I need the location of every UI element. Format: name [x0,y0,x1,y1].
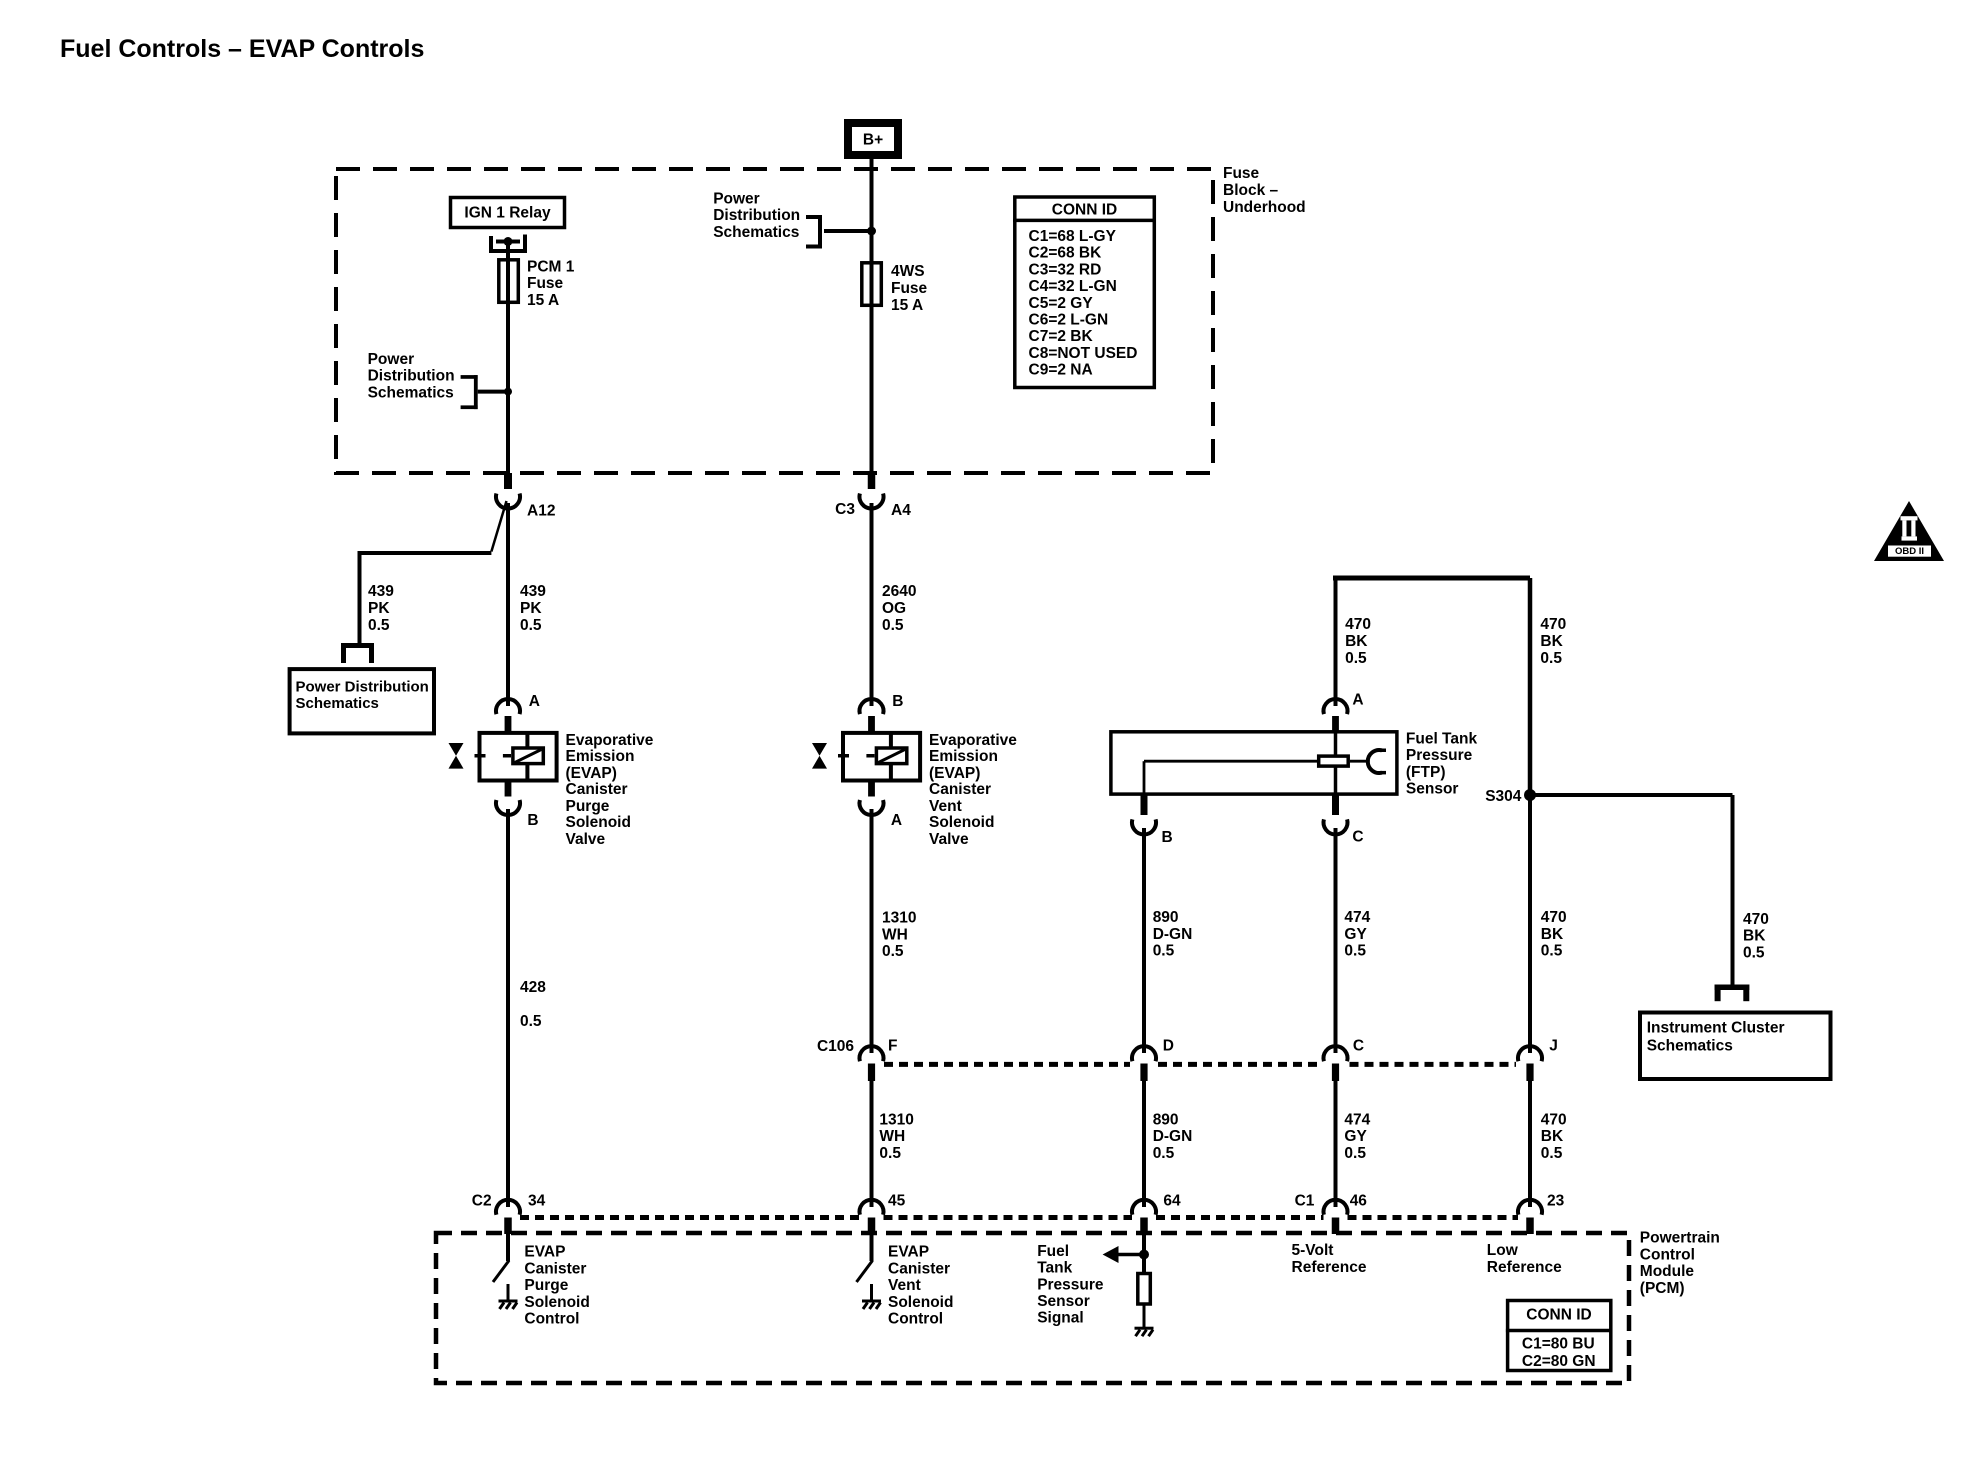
svg-text:Powertrain: Powertrain [1640,1230,1720,1247]
svg-text:Solenoid: Solenoid [524,1294,589,1311]
connector PCM-23 pin [1526,1218,1534,1235]
connector PCM-46 pin [1332,1218,1340,1235]
svg-text:64: 64 [1163,1193,1181,1210]
wire S304 to instrument cluster branch [1530,793,1733,797]
svg-text:Control: Control [888,1311,943,1328]
connector PCM-34 pin [504,1218,512,1235]
connector PCM-45 cup [860,1200,884,1215]
wire power distribution branch [824,229,872,233]
connector PCM-34 cup [496,1200,520,1215]
FTP resistor wire [1143,1304,1146,1327]
svg-text:Canister: Canister [524,1260,586,1277]
svg-text:Schematics: Schematics [368,385,454,402]
svg-text:C6=2 L-GN: C6=2 L-GN [1029,312,1109,329]
svg-text:BK: BK [1743,928,1766,945]
svg-text:Pressure: Pressure [1406,747,1473,764]
svg-text:PCM 1: PCM 1 [527,258,575,275]
wire top bracket FTP-A to 470BK [1333,576,1530,581]
svg-text:A4: A4 [891,502,911,519]
svg-text:(PCM): (PCM) [1640,1280,1685,1297]
svg-text:A: A [529,693,540,710]
svg-text:Sensor: Sensor [1037,1293,1090,1310]
svg-text:Vent: Vent [888,1277,921,1294]
connector FTP A cup [1324,699,1348,714]
connector row C106 dotted line [884,1062,1130,1067]
svg-text:C8=NOT USED: C8=NOT USED [1029,345,1138,362]
svg-text:OBD II: OBD II [1895,546,1924,557]
connector PCM-23 cup [1518,1200,1542,1215]
svg-text:15 A: 15 A [527,292,559,309]
svg-text:Evaporative: Evaporative [566,732,654,749]
fuse 4WS 15 A [862,263,882,306]
wire 428 / purge control [506,809,510,1207]
connector A12 cup [496,494,520,509]
svg-text:0.5: 0.5 [1153,943,1175,960]
svg-text:0.5: 0.5 [520,617,542,634]
svg-text:GY: GY [1344,1128,1367,1145]
wire 470 BK lower [1528,1081,1532,1207]
svg-text:Valve: Valve [929,831,969,848]
wire 470 BK right vertical upper [1528,578,1533,795]
svg-text:C7=2 BK: C7=2 BK [1029,328,1094,345]
connector PCM-46 cup [1324,1200,1348,1215]
svg-text:45: 45 [888,1193,906,1210]
svg-text:Tank: Tank [1037,1260,1072,1277]
wire relay to PCM1 fuse [506,242,510,475]
connector EVAP canister purge solenoid valve bottom cup [496,800,520,815]
EVAP purge control wire [506,1233,510,1261]
svg-text:23: 23 [1547,1193,1565,1210]
svg-text:C: C [1353,1038,1364,1055]
EVAP canister vent solenoid valve valve symbol [812,743,827,756]
EVAP canister vent solenoid valve coil link [889,733,893,748]
fuse block - underhood dashed box [336,169,1213,473]
FTP signal arrow [1117,1253,1144,1257]
svg-text:Pressure: Pressure [1037,1276,1104,1293]
IGN 1 Relay box [451,198,565,228]
svg-text:Emission: Emission [929,748,998,765]
powertrain control module dashed box [436,1233,1629,1383]
svg-text:Schematics: Schematics [1647,1038,1733,1055]
svg-text:Canister: Canister [888,1260,950,1277]
connector EVAP canister vent solenoid valve bottom pin [868,781,875,797]
EVAP canister purge solenoid valve valve symbol [449,743,464,756]
wire 470 BK middle [1528,795,1532,1053]
svg-text:Underhood: Underhood [1223,199,1306,216]
svg-text:Fuse: Fuse [891,280,928,297]
svg-text:890: 890 [1153,1111,1179,1128]
EVAP canister vent solenoid valve valve dashed link [838,754,849,758]
B+ battery feed box [848,123,898,155]
svg-text:(EVAP): (EVAP) [566,765,617,782]
svg-text:890: 890 [1153,909,1179,926]
svg-text:Fuel: Fuel [1037,1243,1069,1260]
power distribution schematics box [290,669,434,733]
node 4WS branch [867,227,876,236]
svg-text:F: F [888,1038,897,1055]
svg-text:5-Volt: 5-Volt [1292,1242,1334,1259]
svg-text:PK: PK [368,600,390,617]
svg-text:C5=2 GY: C5=2 GY [1029,295,1094,312]
svg-text:Vent: Vent [929,798,962,815]
svg-text:BK: BK [1541,1128,1564,1145]
svg-text:439: 439 [368,583,394,600]
wire 1310 WH upper [870,809,874,1053]
connector C106-J pin [1526,1064,1533,1082]
svg-text:C: C [1352,828,1363,845]
svg-text:439: 439 [520,583,546,600]
svg-text:34: 34 [528,1193,546,1210]
svg-text:Instrument Cluster: Instrument Cluster [1647,1020,1785,1037]
FTP sensing element [1319,756,1349,766]
svg-text:Control: Control [524,1311,579,1328]
svg-text:0.5: 0.5 [1541,1145,1563,1162]
svg-text:0.5: 0.5 [1344,1145,1366,1162]
svg-text:Fuse: Fuse [1223,165,1260,182]
svg-text:2640: 2640 [882,583,916,600]
node purge PD branch [504,388,512,396]
wire power distribution branch (left) [478,390,508,394]
svg-text:474: 474 [1344,1111,1370,1128]
svg-text:A: A [1352,692,1363,709]
EVAP canister purge solenoid valve coil [513,748,543,764]
EVAP purge control switch [493,1261,509,1283]
node S304 [1524,789,1536,801]
connector C106-D cup [1132,1046,1156,1061]
svg-text:0.5: 0.5 [520,1013,542,1030]
svg-text:C2=80 GN: C2=80 GN [1522,1353,1596,1370]
svg-text:Reference: Reference [1292,1259,1367,1276]
svg-text:S304: S304 [1485,788,1522,805]
svg-text:428: 428 [520,979,546,996]
connector C3-A4 cup [860,494,884,509]
svg-text:470: 470 [1541,1111,1567,1128]
svg-text:A: A [891,812,902,829]
svg-text:0.5: 0.5 [879,1145,901,1162]
svg-text:15 A: 15 A [891,297,923,314]
relay output bracket [489,236,493,253]
svg-text:IGN 1 Relay: IGN 1 Relay [464,204,551,221]
svg-text:Power Distribution: Power Distribution [296,678,429,695]
connector EVAP canister purge solenoid valve bottom pin [505,781,512,797]
svg-text:C1: C1 [1295,1193,1315,1210]
fuse block CONN ID table [1015,197,1155,388]
svg-text:(FTP): (FTP) [1406,764,1446,781]
svg-text:Fuse: Fuse [527,275,564,292]
svg-text:CONN ID: CONN ID [1526,1307,1591,1324]
wire 890 D-GN lower [1142,1081,1146,1207]
EVAP canister purge solenoid valve valve dashed link [475,754,486,758]
svg-text:Control: Control [1640,1246,1695,1263]
connector FTP C pin [1332,794,1339,815]
connector C106-C pin [1332,1064,1339,1082]
connector C3-A4 pin [868,473,876,489]
svg-text:Fuel Controls – EVAP Controls: Fuel Controls – EVAP Controls [60,35,424,63]
svg-text:0.5: 0.5 [1153,1145,1175,1162]
svg-text:BK: BK [1540,633,1563,650]
svg-text:C106: C106 [817,1038,854,1055]
connector EVAP canister purge solenoid valve top cup [496,699,520,714]
EVAP canister vent solenoid valve coil [876,748,906,764]
svg-text:Schematics: Schematics [296,695,379,712]
svg-text:Evaporative: Evaporative [929,732,1017,749]
wire 474 GY lower [1334,1081,1338,1207]
svg-text:C2=68 BK: C2=68 BK [1029,245,1103,262]
connector C106-J cup [1518,1046,1542,1061]
svg-text:(EVAP): (EVAP) [929,765,980,782]
svg-text:474: 474 [1344,909,1370,926]
connector row PCM dotted line [520,1215,860,1220]
svg-text:Purge: Purge [524,1277,568,1294]
svg-text:Emission: Emission [566,748,635,765]
svg-text:1310: 1310 [879,1111,913,1128]
svg-text:OG: OG [882,600,906,617]
svg-text:470: 470 [1345,616,1371,633]
EVAP vent control wire [870,1233,874,1261]
svg-text:1310: 1310 [882,910,916,927]
svg-text:PK: PK [520,600,542,617]
svg-text:WH: WH [882,926,908,943]
svg-text:B+: B+ [863,132,883,149]
connector PCM-64 pin [1140,1218,1148,1235]
svg-text:0.5: 0.5 [368,617,390,634]
EVAP canister purge solenoid valve coil link [525,733,529,748]
svg-text:4WS: 4WS [891,263,925,280]
svg-text:D: D [1163,1038,1174,1055]
svg-text:B: B [892,693,903,710]
connector FTP B pin [1141,794,1148,815]
svg-text:BK: BK [1345,633,1368,650]
wire 1310 WH lower [870,1081,874,1207]
FTP port symbol [1368,750,1382,773]
svg-text:Sensor: Sensor [1406,781,1459,798]
svg-text:C3=32 RD: C3=32 RD [1029,261,1102,278]
wire tap to power distribution (diagonal) [491,501,506,552]
svg-text:C1=68 L-GY: C1=68 L-GY [1029,228,1117,245]
wire B+ to 4WS fuse [870,155,874,474]
wire 890 D-GN upper [1142,828,1146,1053]
svg-text:Fuel Tank: Fuel Tank [1406,730,1478,747]
EVAP canister purge solenoid valve box [480,733,557,781]
connector EVAP canister vent solenoid valve bottom cup [860,800,884,815]
ground (FTP signal) [1135,1327,1154,1330]
fuse PCM 1 15 A [499,260,519,303]
svg-text:A12: A12 [527,503,555,520]
connector C106-C cup [1324,1046,1348,1061]
connector PCM-64 cup [1132,1200,1156,1215]
connector FTP A pin [1332,716,1339,732]
connector EVAP canister purge solenoid valve top pin [505,716,512,731]
svg-text:Signal: Signal [1037,1310,1084,1327]
svg-text:J: J [1549,1038,1558,1055]
connector PCM-45 pin [868,1218,876,1235]
connector EVAP canister vent solenoid valve top cup [860,699,884,714]
svg-text:C2: C2 [472,1193,492,1210]
node FTP signal [1139,1250,1149,1260]
node relay output [504,237,513,246]
wire to power distribution schematics [360,551,492,555]
half-box bracket power distribution [341,643,374,648]
FTP internal wiring [1334,733,1338,756]
svg-text:Purge: Purge [566,798,610,815]
svg-text:EVAP: EVAP [524,1244,565,1261]
svg-text:B: B [527,812,538,829]
svg-text:C4=32 L-GN: C4=32 L-GN [1029,278,1117,295]
EVAP vent control switch [857,1261,873,1283]
svg-text:470: 470 [1541,909,1567,926]
FTP signal wire [1142,1233,1146,1273]
connector A12 pin [504,473,512,489]
svg-text:0.5: 0.5 [882,617,904,634]
power distribution bracket (right) [818,215,822,249]
resistor (FTP pull-up) [1138,1274,1151,1305]
svg-text:Canister: Canister [929,781,991,798]
svg-text:0.5: 0.5 [1540,650,1562,667]
wire 474 GY upper [1334,828,1338,1053]
PCM CONN ID table [1508,1301,1611,1371]
svg-text:0.5: 0.5 [1345,650,1367,667]
svg-text:46: 46 [1350,1193,1368,1210]
svg-text:Canister: Canister [566,781,628,798]
OBD II symbol [1874,501,1944,561]
svg-text:EVAP: EVAP [888,1244,929,1261]
svg-text:BK: BK [1541,926,1564,943]
instrument cluster schematics box [1640,1013,1831,1080]
svg-text:Distribution: Distribution [713,207,800,224]
connector FTP B cup [1132,819,1156,834]
svg-text:0.5: 0.5 [1541,943,1563,960]
fuel tank pressure sensor box [1111,732,1397,794]
svg-text:GY: GY [1344,926,1367,943]
svg-text:D-GN: D-GN [1153,926,1193,943]
connector C106-F cup [860,1046,884,1061]
connector EVAP canister vent solenoid valve top pin [868,716,875,731]
svg-text:0.5: 0.5 [1344,943,1366,960]
half-box bracket instrument cluster [1715,985,1750,991]
svg-text:Distribution: Distribution [368,368,455,385]
svg-text:470: 470 [1743,911,1769,928]
EVAP canister vent solenoid valve box [843,733,920,781]
connector C106-D pin [1140,1064,1147,1082]
svg-text:Reference: Reference [1487,1259,1562,1276]
svg-text:C1=80 BU: C1=80 BU [1522,1336,1595,1353]
svg-text:Low: Low [1487,1242,1519,1259]
wire 2640 OG [870,503,874,706]
wire 439 PK [506,503,510,706]
svg-text:C3: C3 [835,501,855,518]
svg-text:WH: WH [879,1128,905,1145]
svg-text:0.5: 0.5 [882,943,904,960]
svg-text:Solenoid: Solenoid [929,814,994,831]
svg-text:B: B [1162,829,1173,846]
svg-text:Solenoid: Solenoid [566,814,631,831]
svg-text:0.5: 0.5 [1743,944,1765,961]
svg-text:Module: Module [1640,1263,1695,1280]
svg-text:470: 470 [1540,616,1566,633]
svg-text:Valve: Valve [566,831,606,848]
ground (purge driver) [499,1300,518,1303]
svg-text:Power: Power [713,190,760,207]
svg-text:D-GN: D-GN [1153,1128,1193,1145]
svg-text:Power: Power [368,351,415,368]
svg-text:Solenoid: Solenoid [888,1294,953,1311]
connector C106-F pin [868,1064,875,1082]
power distribution bracket (left) [474,375,478,409]
svg-text:Schematics: Schematics [713,224,799,241]
svg-text:CONN ID: CONN ID [1052,202,1117,219]
svg-text:Block –: Block – [1223,182,1279,199]
svg-text:C9=2 NA: C9=2 NA [1029,362,1093,379]
ground (vent driver) [862,1300,881,1303]
wire FTP A up [1334,578,1338,706]
connector FTP C cup [1324,819,1348,834]
